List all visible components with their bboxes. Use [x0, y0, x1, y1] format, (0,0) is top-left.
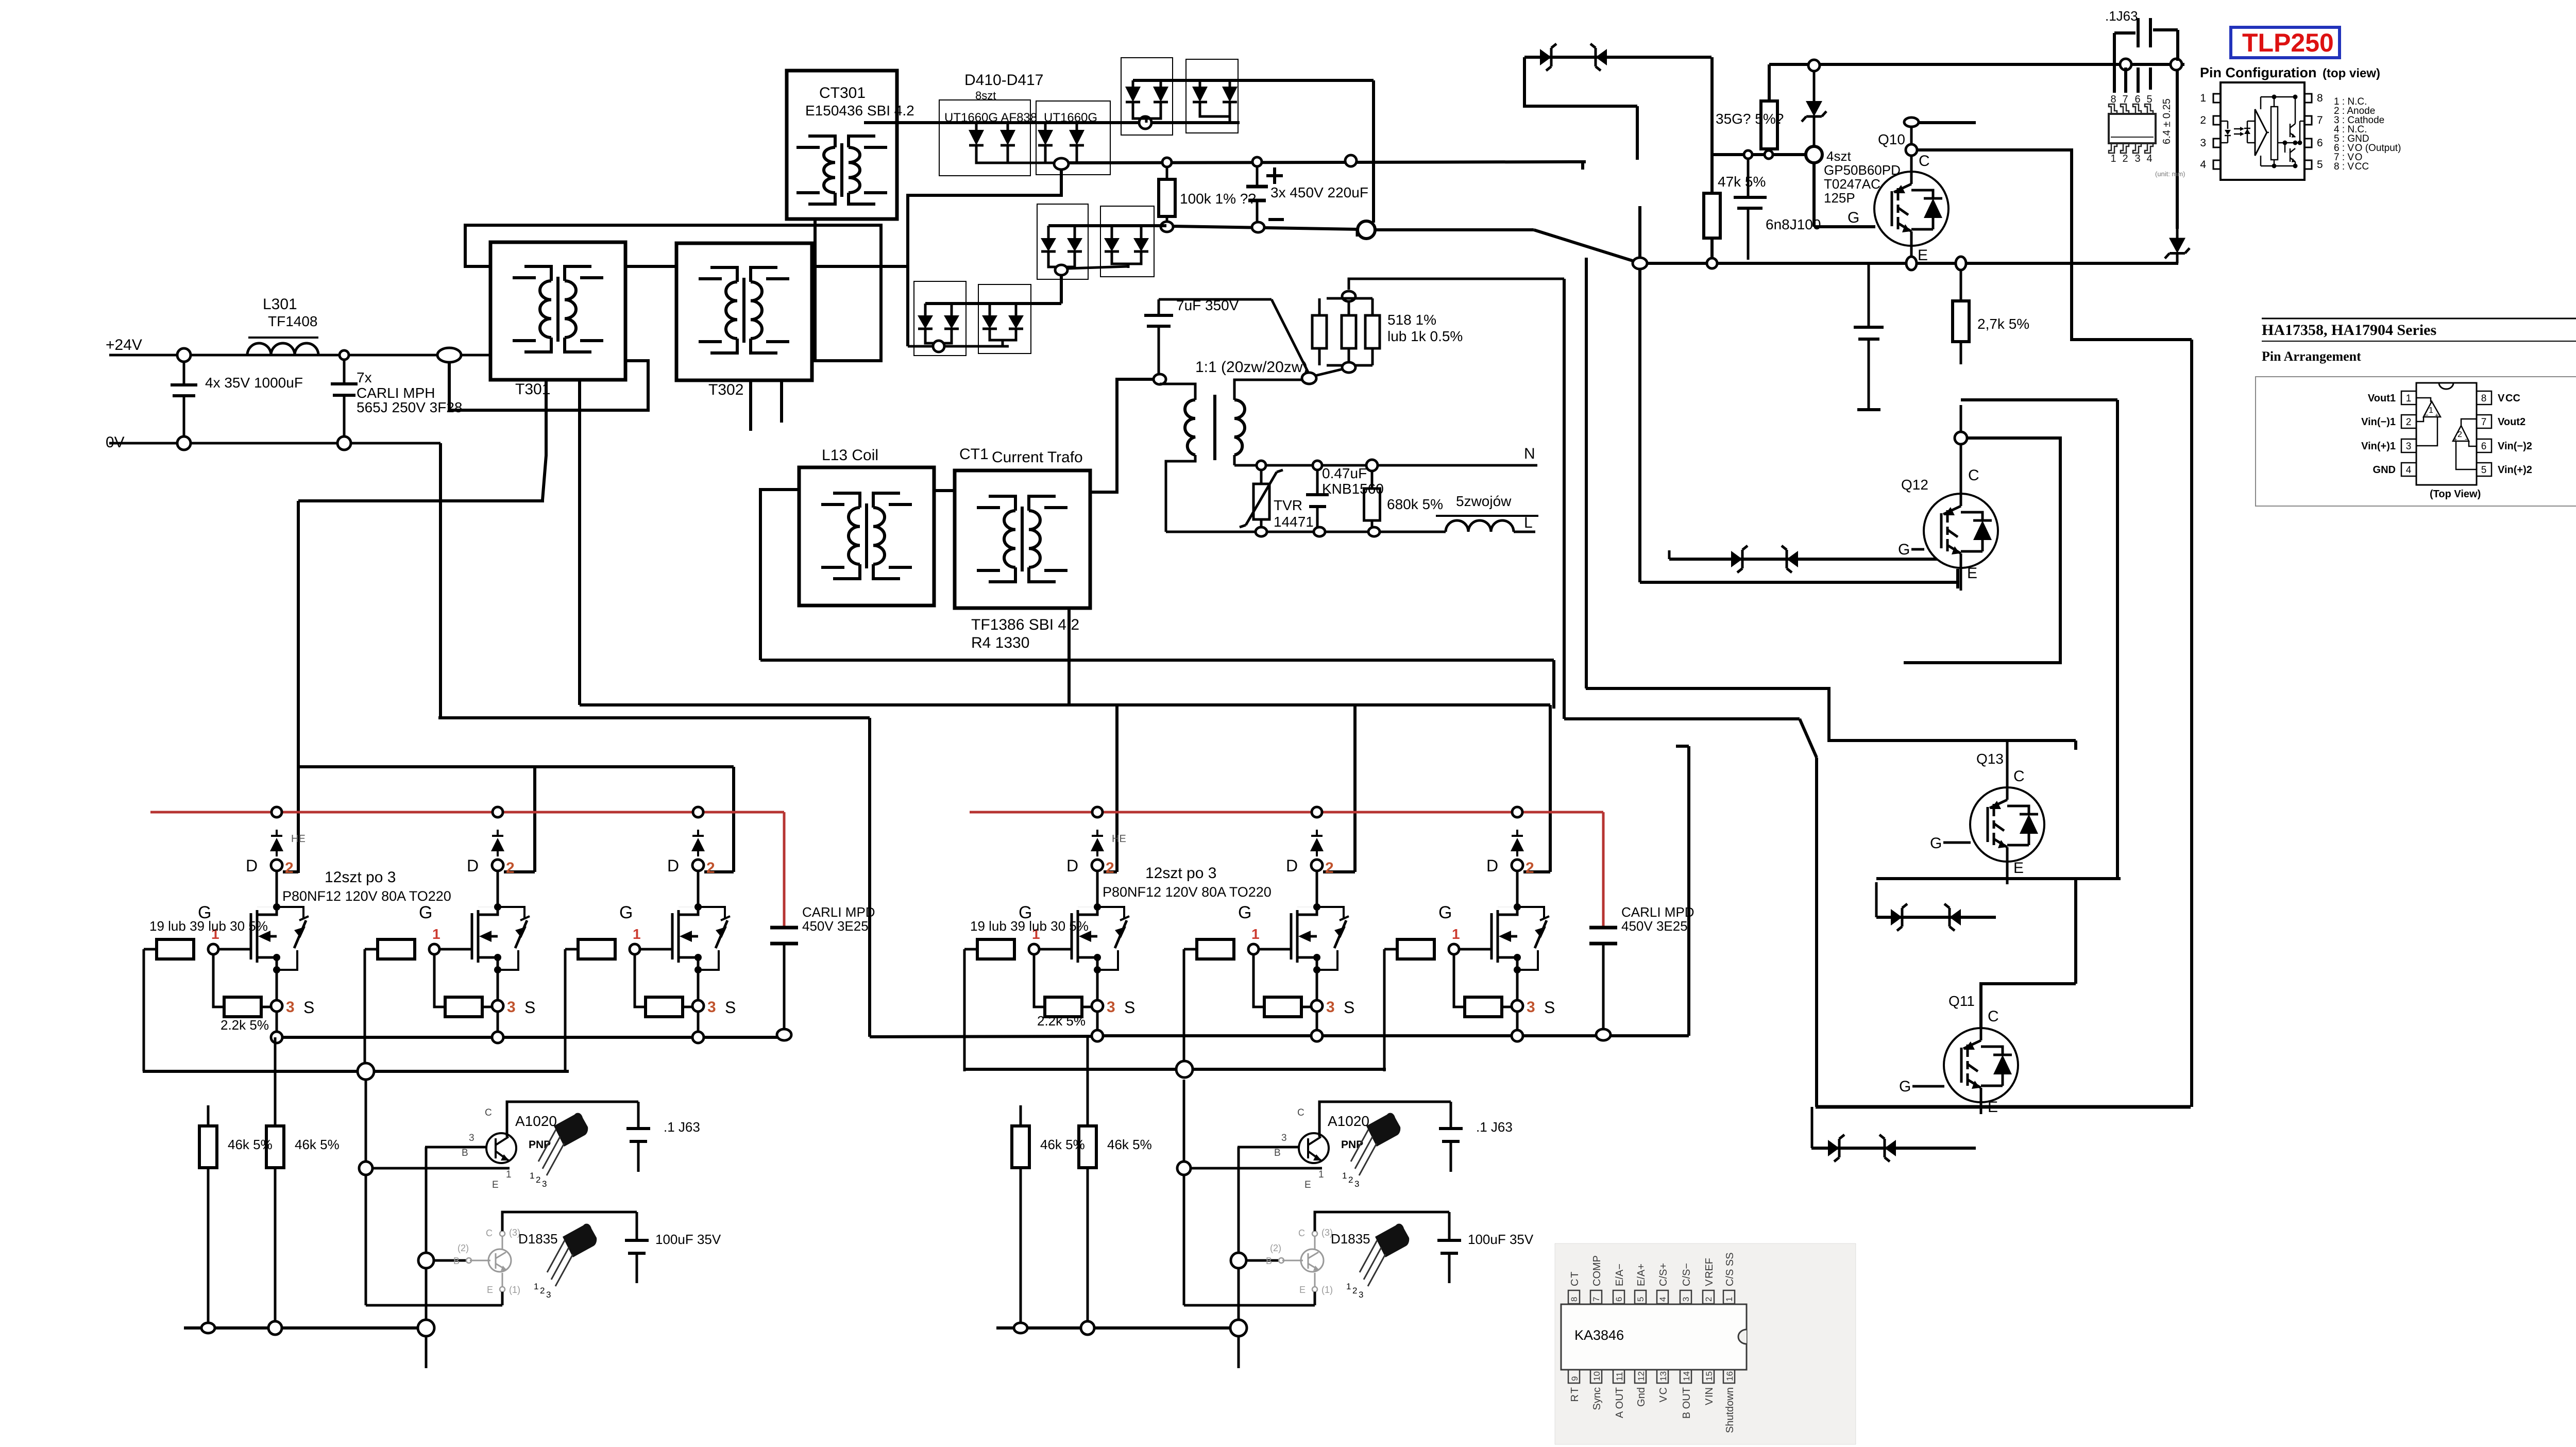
logo TLP250 — [2231, 27, 2340, 58]
package TO92 A1020 group1 — [554, 1113, 588, 1147]
diode UT1660G b — [1076, 124, 1078, 130]
node cap minus — [1252, 222, 1264, 232]
wire Q13 gate stub — [1943, 842, 1971, 844]
wire red gate bus group1 — [150, 811, 784, 814]
capacitor CARLI MPD group2 — [1589, 926, 1617, 930]
varistor TVR 14471 — [1260, 470, 1263, 484]
node Q10 gate big — [1806, 146, 1822, 163]
svg-text:(top view): (top view) — [2323, 66, 2380, 80]
svg-text:3: 3 — [1107, 999, 1115, 1016]
svg-text:GND: GND — [2373, 464, 2396, 476]
resistor gate series — [1197, 939, 1234, 959]
resistor source 2.2k — [224, 997, 261, 1017]
wire top rail drop to minus node — [1372, 80, 1375, 223]
transformer T301 windings — [540, 281, 551, 338]
diode pack mid-right box2 — [1100, 206, 1154, 277]
svg-text:1:1 (20zw/20zw): 1:1 (20zw/20zw) — [1195, 359, 1308, 376]
svg-text:Q10: Q10 — [1878, 131, 1905, 147]
wire D to MOSFET — [1516, 871, 1519, 907]
svg-text:TF1408: TF1408 — [268, 313, 318, 329]
zener drain-source — [1317, 907, 1344, 918]
svg-text:3: 3 — [2406, 441, 2412, 452]
svg-text:C: C — [1297, 1107, 1304, 1118]
svg-text:S: S — [524, 998, 535, 1017]
svg-text:2: 2 — [1348, 1175, 1353, 1185]
svg-text:1: 1 — [2429, 406, 2433, 415]
wire T302 bottom lead A — [749, 380, 752, 431]
wire block bottom drop — [1552, 660, 1555, 709]
node D pin 2 — [492, 860, 503, 871]
svg-text:R4 1330: R4 1330 — [971, 634, 1029, 651]
wire UT packs anode stubs — [975, 123, 978, 130]
capacitor CARLI MPD group1 — [770, 926, 798, 930]
svg-text:S: S — [1544, 998, 1555, 1017]
svg-text:5: 5 — [2146, 94, 2152, 105]
node after L301 — [340, 350, 349, 360]
svg-text:3: 3 — [1359, 1290, 1363, 1300]
package DIP-8 pins right — [2477, 391, 2492, 405]
svg-text:G: G — [1438, 903, 1452, 922]
transistor P80NF12 cell — [1313, 903, 1320, 911]
wire D to MOSFET — [697, 871, 700, 907]
wire Q13 E drop right — [2074, 879, 2077, 984]
wire diode pair left drop — [1524, 57, 1637, 106]
transformer T301 box — [490, 242, 625, 380]
wire gate loop down — [364, 949, 366, 1071]
svg-text:2: 2 — [540, 1286, 545, 1295]
diode low-left b — [951, 309, 953, 315]
capacitor .1 J63 group2 — [1450, 1102, 1452, 1128]
svg-text:Pin Arrangement: Pin Arrangement — [2262, 349, 2361, 364]
inductor 5zwojow — [1446, 520, 1514, 532]
svg-text:13: 13 — [1658, 1371, 1668, 1381]
diode low-left a — [924, 309, 927, 315]
node source bus2 cell1 — [1092, 1030, 1103, 1041]
wire node to 518 bottom — [1315, 369, 1343, 376]
wire bottom emitter bus — [1816, 1105, 2191, 1109]
svg-text:3: 3 — [1527, 999, 1535, 1016]
svg-text:4x 35V 1000uF: 4x 35V 1000uF — [205, 375, 303, 391]
svg-text:5zwojów: 5zwojów — [1456, 493, 1512, 509]
wire D-net group1 stub1 — [283, 870, 298, 873]
svg-text:CT301: CT301 — [819, 85, 866, 102]
wire 1:1 primary top lead — [1160, 384, 1195, 400]
svg-text:V C: V C — [1658, 1387, 1669, 1402]
IC KA3846 body — [1561, 1304, 1747, 1370]
wire base row group1 — [372, 1167, 510, 1170]
wire gate loop down — [1183, 949, 1185, 1071]
svg-text:15: 15 — [1704, 1371, 1714, 1381]
transformer CT301 windings — [824, 147, 835, 193]
svg-text:(1): (1) — [1321, 1285, 1333, 1295]
svg-text:L301: L301 — [263, 296, 297, 313]
svg-text:2: 2 — [1106, 860, 1114, 877]
wire source down to bus — [697, 1012, 700, 1037]
package TLP250 pins left — [2213, 94, 2221, 103]
svg-text:2: 2 — [536, 1175, 540, 1185]
zener drain-source — [498, 907, 524, 918]
svg-text:Q13: Q13 — [1976, 751, 2004, 767]
node bottom bus b group1 — [268, 1321, 282, 1335]
wire D1835 collector group2 — [1312, 1231, 1317, 1236]
svg-text:1: 1 — [1251, 926, 1260, 942]
svg-text:D: D — [1486, 856, 1498, 875]
svg-text:12: 12 — [1636, 1371, 1646, 1381]
node gate pin 1 — [208, 944, 218, 954]
svg-text:+24V: +24V — [106, 336, 142, 354]
wire gate loop down — [143, 949, 145, 1071]
svg-text:TF1386 SBI 4.2: TF1386 SBI 4.2 — [971, 616, 1079, 633]
wire D to MOSFET — [497, 871, 499, 907]
svg-text:100uF 35V: 100uF 35V — [655, 1232, 721, 1247]
capacitor 7x CARLI MPH — [343, 360, 346, 383]
transistor Q12 IGBT — [1924, 494, 1998, 568]
wire D-net group1 drop2 — [533, 767, 536, 872]
transformer T302 box — [676, 243, 812, 380]
wire right drop to bottom bus — [2190, 340, 2193, 1107]
wire mid pack output down — [1060, 275, 1063, 304]
svg-text:−: − — [2425, 411, 2429, 419]
svg-text:16: 16 — [1725, 1371, 1735, 1381]
diode pack lower-left box2 — [978, 284, 1031, 354]
capacitor 4x 35V 1000uF — [183, 361, 185, 383]
node Q10 emitter — [1906, 257, 1917, 270]
node TVR bottom — [1256, 527, 1267, 536]
node Q10 collector top oval — [1904, 117, 1919, 127]
node 7uF bottom — [1154, 374, 1166, 384]
node 0V cap1 — [177, 436, 191, 450]
svg-text:3x 450V 220uF: 3x 450V 220uF — [1270, 184, 1368, 200]
wire A1020 base group1 — [425, 1146, 486, 1149]
diode drain-bus — [497, 851, 499, 856]
diode D412b — [1229, 80, 1231, 87]
wire gate node to source resistor — [213, 954, 224, 1007]
diode D412a — [1199, 80, 1201, 87]
wire Q12 right vertical — [2116, 400, 2119, 879]
svg-text:C/S+: C/S+ — [1658, 1263, 1669, 1286]
package DIP-8 body — [2416, 383, 2477, 485]
wire 7uF top link — [1159, 298, 1272, 301]
wire Q11 emitter to bus — [1980, 1102, 1982, 1114]
svg-text:G: G — [619, 903, 633, 922]
svg-text:3: 3 — [507, 999, 516, 1016]
svg-text:S: S — [303, 998, 314, 1017]
capacitor 100uF 35V group1 — [636, 1212, 638, 1239]
node source bus2 cell3 — [1512, 1030, 1523, 1041]
panel HA17358 box — [2256, 377, 2576, 506]
wire plus-net vertical — [1581, 161, 1584, 170]
diode pack UT1660G AF838 box — [939, 100, 1030, 176]
svg-text:E: E — [1299, 1285, 1306, 1295]
resistor source 2.2k — [1264, 997, 1301, 1017]
svg-text:S: S — [1344, 998, 1354, 1017]
node 0.47uF top — [1313, 461, 1322, 470]
svg-text:450V 3E25: 450V 3E25 — [802, 918, 869, 934]
transistor D1835 group1 — [488, 1249, 511, 1272]
wire +24V rail — [109, 354, 490, 357]
svg-text:Q11: Q11 — [1948, 993, 1975, 1009]
svg-text:2: 2 — [1704, 1297, 1714, 1302]
transformer L13 windings — [849, 508, 860, 564]
wire UT packs cathode rail — [976, 153, 1077, 163]
svg-text:8: 8 — [2110, 94, 2116, 105]
wire N rail — [1234, 464, 1537, 467]
resistor gate series — [977, 939, 1014, 959]
svg-text:P80NF12 120V 80A TO220: P80NF12 120V 80A TO220 — [282, 888, 451, 904]
IC KA3846 bottom pins — [1568, 1370, 1580, 1383]
resistor 46k a group1 — [207, 1105, 210, 1126]
svg-text:47k 5%: 47k 5% — [1718, 174, 1766, 190]
op-amp U1 — [2424, 401, 2441, 417]
svg-text:Vout2: Vout2 — [2498, 416, 2526, 428]
wire mid packs cathode join — [1048, 259, 1075, 267]
svg-text:46k 5%: 46k 5% — [295, 1137, 340, 1152]
wire 518-net vertical — [1563, 279, 1566, 719]
svg-text:UT1660G AF838: UT1660G AF838 — [944, 111, 1037, 125]
svg-text:2.2k 5%: 2.2k 5% — [1037, 1013, 1086, 1029]
diode pair top back-to-back — [1524, 56, 1711, 59]
transformer CT1 windings — [1004, 511, 1015, 567]
wire Q13 emitter — [2006, 861, 2009, 884]
wire 518-net to Q13 run — [1564, 717, 1800, 720]
wire gate node to source resistor — [1454, 954, 1465, 1007]
zener high side pair column — [2176, 71, 2179, 229]
node drain top on red bus — [1312, 807, 1322, 817]
svg-text:E: E — [1304, 1180, 1311, 1190]
diode drain-bus — [697, 851, 699, 856]
svg-text:1: 1 — [633, 926, 641, 942]
svg-text:D1835: D1835 — [1331, 1231, 1370, 1247]
resistor 46k b group1 — [274, 1037, 277, 1126]
svg-text:D: D — [467, 856, 479, 875]
svg-text:CARLI MPD: CARLI MPD — [802, 904, 875, 920]
diode pair mid back-to-back — [1669, 558, 1942, 561]
svg-text:1: 1 — [1318, 1169, 1324, 1180]
node bottom bus big group2 — [1230, 1320, 1247, 1336]
wire D1835 base column group1 — [425, 1147, 428, 1253]
svg-text:0.47uF: 0.47uF — [1322, 465, 1367, 481]
svg-text:3: 3 — [546, 1290, 551, 1300]
wire top rail TLP side — [1769, 63, 2184, 66]
title HA17358 series — [2262, 318, 2576, 319]
node 0.47 bottom — [1314, 527, 1325, 536]
node gate pin 1 — [630, 944, 640, 954]
transistor Q10 IGBT — [1874, 172, 1948, 246]
wire to Q12 emitter — [1640, 581, 1958, 584]
wire 518 top link — [1349, 279, 1564, 290]
svg-text:E: E — [2013, 860, 2024, 877]
transistor D1835 group2 — [1301, 1249, 1324, 1272]
svg-text:Gnd: Gnd — [1636, 1387, 1647, 1407]
wire D to MOSFET — [1316, 871, 1318, 907]
svg-text:100uF 35V: 100uF 35V — [1468, 1232, 1534, 1247]
wire pack1 cathode join — [1133, 109, 1161, 119]
svg-text:125P: 125P — [1824, 190, 1855, 206]
node gate pin 1 — [429, 944, 439, 954]
svg-text:B: B — [1266, 1256, 1272, 1266]
node S pin 3 — [492, 1000, 503, 1012]
node 680k top — [1366, 460, 1378, 471]
svg-text:4: 4 — [2146, 153, 2152, 164]
node cap group2 bottom — [1596, 1029, 1611, 1040]
wire CT1 to 7uF node — [1090, 379, 1154, 492]
wire gate bus group2 — [964, 1068, 1386, 1071]
resistor 35G? 5%? — [1768, 64, 1771, 101]
wire to Q11 collector — [1981, 984, 2076, 1029]
transistor P80NF12 cell — [1094, 903, 1101, 911]
wire Q13 E line — [1876, 877, 2121, 880]
capacitor 6n8J100 — [1747, 159, 1750, 196]
svg-text:D410-D417: D410-D417 — [964, 72, 1043, 89]
svg-text:.1 J63: .1 J63 — [664, 1119, 700, 1135]
svg-text:1: 1 — [1346, 1282, 1351, 1291]
wire D1835 emitter group1 — [500, 1287, 505, 1292]
wire source down to bus — [276, 1012, 278, 1037]
wire drop to E-line oval — [1636, 106, 1639, 160]
node +24V input junction — [177, 348, 191, 362]
wire T302 to rectifier block — [812, 265, 908, 268]
resistor 100k 1% — [1166, 167, 1168, 178]
wire D to MOSFET — [1096, 871, 1099, 907]
svg-text:TLP250: TLP250 — [2242, 28, 2334, 57]
zener D Q10 gate clamp — [1813, 71, 1816, 101]
svg-text:D: D — [667, 856, 679, 875]
svg-text:2: 2 — [285, 860, 294, 877]
node DC minus big — [1358, 221, 1375, 239]
svg-text:8: 8 — [1569, 1297, 1579, 1302]
svg-text:E/A−: E/A− — [1614, 1264, 1625, 1286]
node D pin 2 — [1311, 860, 1323, 871]
wire gate loop down — [1383, 949, 1386, 1071]
node S pin 3 — [692, 1000, 704, 1012]
svg-text:8: 8 — [2317, 92, 2323, 104]
node S pin 3 — [1311, 1000, 1323, 1012]
panel KA3846 scan background — [1555, 1243, 1856, 1444]
node drain top on red bus — [493, 807, 503, 817]
svg-text:35G? 5%?: 35G? 5%? — [1716, 111, 1784, 127]
svg-text:7: 7 — [2122, 94, 2128, 105]
node S pin 3 — [1092, 1000, 1103, 1012]
svg-text:S: S — [1124, 998, 1135, 1017]
svg-text:T0247AC: T0247AC — [1824, 176, 1880, 192]
node S pin 3 — [1512, 1000, 1523, 1012]
svg-text:100k 1% ??: 100k 1% ?? — [1180, 191, 1256, 207]
zener drain-source — [277, 907, 303, 918]
svg-text:3: 3 — [1354, 1179, 1359, 1189]
node cap group1 bottom — [777, 1029, 791, 1040]
svg-text:HE: HE — [291, 833, 306, 845]
diode pair Q11 gate clamp — [1811, 1107, 1814, 1148]
wire gate node to source resistor — [1253, 954, 1264, 1007]
node 680k bottom — [1368, 527, 1380, 536]
svg-text:2: 2 — [1325, 860, 1334, 877]
node cap .1J63 right — [2171, 59, 2182, 70]
svg-text:G: G — [1848, 209, 1859, 226]
wire Q12 collector to inner loop — [1904, 438, 2060, 663]
svg-text:B: B — [462, 1148, 468, 1158]
svg-text:E: E — [487, 1285, 493, 1295]
svg-text:5: 5 — [1636, 1297, 1646, 1302]
svg-text:1: 1 — [534, 1282, 538, 1291]
resistor 47k 5% — [1710, 57, 1714, 193]
diode mid c — [1111, 232, 1113, 238]
transistor A1020 group1 — [486, 1133, 516, 1163]
diode low-left c — [989, 309, 991, 315]
svg-text:V REF: V REF — [1704, 1258, 1715, 1286]
svg-text:3: 3 — [2200, 137, 2206, 149]
svg-text:UT1660G: UT1660G — [1044, 111, 1097, 125]
wire lower pack output bus — [944, 345, 1009, 348]
transformer CT301 box — [787, 71, 897, 219]
svg-text:L13 Coil: L13 Coil — [822, 447, 878, 464]
svg-text:14471: 14471 — [1274, 514, 1314, 530]
svg-text:Vin(+)2: Vin(+)2 — [2498, 464, 2532, 476]
wire Q12 collector top rail — [1961, 398, 2117, 401]
wire source down to bus — [1316, 1012, 1318, 1037]
wire T301 secondary lead B — [578, 380, 581, 705]
capacitor 3x 450V 220uF — [1256, 166, 1259, 186]
svg-text:10: 10 — [1592, 1371, 1602, 1381]
svg-text:6.4 ± 0.25: 6.4 ± 0.25 — [2161, 98, 2173, 144]
svg-text:C: C — [486, 1228, 493, 1238]
svg-text:3: 3 — [707, 999, 716, 1016]
diode pack D412 box2 — [1186, 59, 1238, 133]
svg-text:2: 2 — [506, 860, 515, 877]
wire T301-T302 link — [625, 265, 676, 268]
node bottom bus a group1 — [201, 1323, 215, 1333]
wire gate feed A — [438, 716, 870, 719]
svg-text:1: 1 — [530, 1171, 534, 1181]
optocoupler internals — [2220, 121, 2228, 122]
svg-text:450V 3E25: 450V 3E25 — [1621, 918, 1688, 934]
wire 1:1 primary bottom lead — [1166, 455, 1195, 532]
node 0V cap2 — [337, 436, 351, 450]
svg-text:6: 6 — [2134, 94, 2140, 105]
node 47k bottom — [1707, 258, 1717, 268]
svg-text:N: N — [1524, 445, 1535, 462]
svg-text:1: 1 — [506, 1169, 512, 1180]
svg-text:.1J63: .1J63 — [2105, 8, 2138, 24]
wire 0V drop to gate bus — [439, 443, 442, 718]
node D pin 2 — [692, 860, 704, 871]
svg-text:1: 1 — [2110, 153, 2116, 164]
svg-text:3: 3 — [286, 999, 295, 1016]
svg-text:8 : V CC: 8 : V CC — [2334, 161, 2369, 172]
diode low-left d — [1015, 309, 1018, 315]
svg-text:S: S — [725, 998, 736, 1017]
wire lower packs cathode join — [925, 336, 952, 343]
wire Q12 emitter — [1960, 567, 1962, 591]
wire gate feed B — [580, 703, 1550, 706]
wire block bottom rail — [760, 659, 1554, 662]
wire gate to transistor — [218, 948, 251, 951]
svg-text:4szt: 4szt — [1826, 148, 1851, 164]
node D pin 2 — [271, 860, 282, 871]
wire mid packs anode rail to minus — [1048, 224, 1166, 227]
svg-text:B OUT: B OUT — [1681, 1387, 1692, 1419]
svg-text:12szt po 3: 12szt po 3 — [1145, 865, 1216, 882]
resistor gate series — [1397, 939, 1434, 959]
package TLP250 pins right — [2304, 94, 2312, 103]
diode drain-bus — [1316, 851, 1318, 856]
inductor L301 — [247, 343, 318, 355]
resistor gate series — [378, 939, 415, 959]
svg-text:4: 4 — [2200, 159, 2206, 171]
svg-text:V IN: V IN — [1704, 1387, 1715, 1405]
svg-text:1: 1 — [2406, 393, 2412, 404]
svg-text:14: 14 — [1682, 1371, 1691, 1381]
diode D410b — [1160, 80, 1162, 87]
